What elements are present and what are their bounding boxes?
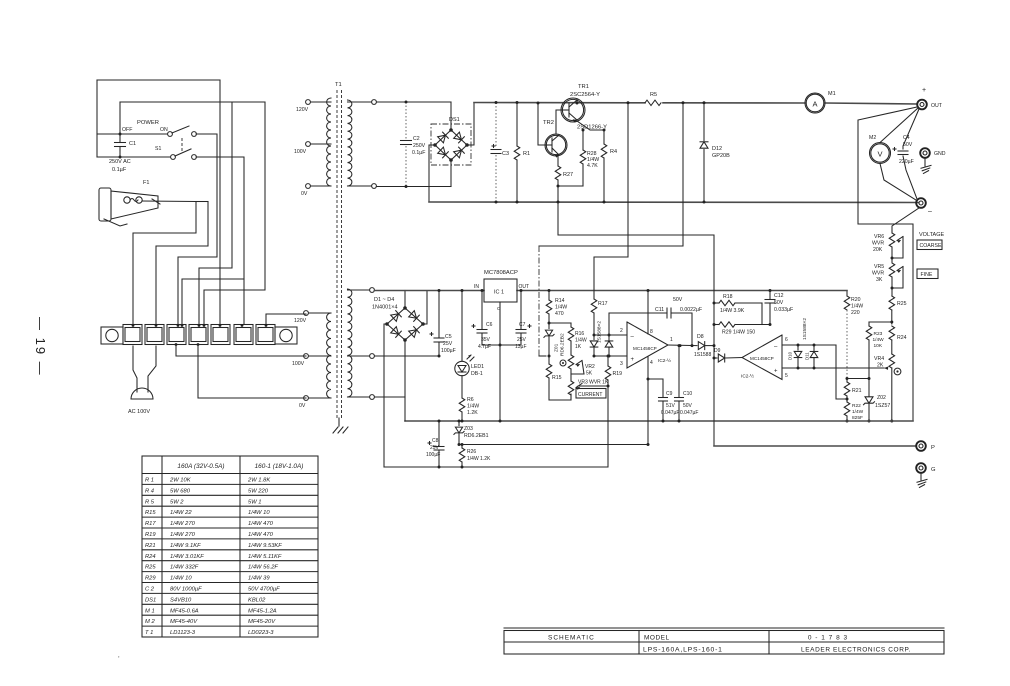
zener diode Z03 [458, 421, 460, 426]
svg-text:4.7µF: 4.7µF [478, 344, 491, 350]
wire fuse pair to strip sq2 [156, 202, 208, 325]
svg-text:0.047µF: 0.047µF [680, 410, 698, 416]
svg-text:0 - 1 7 8 3: 0 - 1 7 8 3 [808, 635, 848, 642]
AC plug [131, 388, 153, 399]
svg-text:MF45-20V: MF45-20V [248, 619, 276, 625]
svg-text:2: 2 [620, 328, 623, 334]
svg-text:1/4W 270: 1/4W 270 [170, 532, 196, 538]
wire R20 bottom to Z02 node [847, 378, 869, 380]
diode D12 [703, 103, 705, 141]
svg-text:LD1123-3: LD1123-3 [170, 630, 196, 636]
wire center tap line [374, 355, 439, 357]
svg-text:D8: D8 [697, 334, 704, 340]
resistor R24 [889, 326, 895, 340]
svg-text:DB-1: DB-1 [471, 371, 483, 377]
terminal strip left lug [101, 327, 123, 344]
svg-text:1S1588: 1S1588 [694, 352, 711, 358]
svg-text:TR2: TR2 [543, 120, 554, 126]
svg-text:0V: 0V [301, 191, 308, 197]
svg-text:100µF: 100µF [426, 452, 440, 458]
svg-text:S1: S1 [155, 146, 161, 152]
resistor R1 [516, 103, 518, 147]
wire C4 to minus terminal [903, 156, 917, 199]
svg-text:8: 8 [650, 329, 653, 335]
svg-text:160A (32V-0.5A): 160A (32V-0.5A) [177, 463, 224, 470]
svg-text:VR2: VR2 [585, 364, 595, 370]
resistor R15 [548, 356, 550, 364]
svg-text:1S1588×2: 1S1588×2 [802, 318, 808, 340]
capacitor C9 [648, 379, 663, 397]
resistor R18 [714, 302, 719, 304]
resistor R26 [461, 445, 463, 449]
wire R27/R28 junction [558, 185, 583, 187]
svg-text:50V 4700µF: 50V 4700µF [248, 587, 280, 593]
transformer secondary winding (bottom) [348, 289, 352, 397]
svg-text:1/4W: 1/4W [555, 305, 567, 311]
resistor R19 [607, 356, 609, 366]
resistor R14 [548, 291, 550, 301]
resistor R29 [714, 324, 719, 326]
svg-text:2SC2564-Y: 2SC2564-Y [570, 92, 600, 98]
svg-text:250V: 250V [413, 143, 426, 149]
svg-text:1/4W 3.9K: 1/4W 3.9K [720, 308, 745, 314]
svg-text:13µF: 13µF [515, 344, 527, 350]
svg-text:R 4: R 4 [145, 488, 154, 494]
svg-text:1: 1 [670, 337, 673, 343]
capacitor C7 [520, 291, 522, 330]
svg-text:R19: R19 [145, 532, 156, 538]
svg-text:4.7K: 4.7K [587, 163, 598, 169]
svg-text:–: – [928, 208, 932, 215]
svg-text:5W 680: 5W 680 [170, 488, 191, 494]
svg-text:51V: 51V [666, 403, 676, 409]
wire bias feed from top [539, 103, 683, 246]
svg-text:R20: R20 [851, 297, 861, 303]
svg-text:120V: 120V [296, 107, 309, 113]
svg-text:+: + [631, 357, 635, 363]
output terminal OUT+ [917, 100, 927, 110]
wire branch to strip sq3b [182, 279, 244, 324]
wire VR3 wiper to R19 [578, 385, 608, 387]
svg-text:R25: R25 [897, 301, 907, 307]
svg-text:C2: C2 [413, 136, 420, 142]
svg-text:0.033µF: 0.033µF [774, 307, 793, 313]
wire from fuse to strip sq1 [133, 202, 196, 325]
diode D8 [698, 342, 704, 350]
resistor R17 [591, 299, 597, 313]
wire pin5 line [782, 367, 884, 369]
svg-text:G: G [931, 467, 936, 473]
svg-text:IC 1: IC 1 [494, 290, 504, 296]
svg-text:R15: R15 [145, 510, 156, 516]
svg-text:KBL02: KBL02 [248, 597, 266, 603]
wire bridge bottom to 0V [404, 340, 406, 397]
svg-text:M 1: M 1 [145, 608, 155, 614]
svg-text:R16: R16 [575, 331, 584, 337]
svg-text:MF45-0.6A: MF45-0.6A [170, 608, 199, 614]
svg-text:POWER: POWER [137, 120, 159, 126]
terminal GND [920, 148, 930, 158]
svg-text:F1: F1 [143, 180, 149, 186]
svg-text:ON: ON [160, 127, 168, 133]
wire bridge left to 0V [384, 324, 387, 397]
svg-text:D11: D11 [805, 352, 810, 360]
svg-text:IC2-½: IC2-½ [658, 357, 671, 364]
svg-text:1/4W 5.11KF: 1/4W 5.11KF [248, 554, 282, 560]
wire 0V tap line [374, 396, 405, 398]
svg-text:LPS-160A,LPS-160-1: LPS-160A,LPS-160-1 [643, 647, 723, 654]
svg-text:1/4W 10: 1/4W 10 [248, 510, 270, 516]
svg-text:R29: R29 [145, 576, 156, 582]
svg-text:AC 100V: AC 100V [128, 409, 150, 415]
wire plug prong 1 [133, 346, 137, 387]
svg-text:1/4W 9.1KF: 1/4W 9.1KF [170, 543, 201, 549]
svg-text:R23: R23 [874, 331, 883, 337]
svg-text:P: P [931, 445, 935, 451]
svg-text:+: + [922, 87, 926, 94]
wire from switch common to top rail [97, 79, 220, 81]
capacitor C5 (electrolytic) [438, 291, 440, 338]
wire M2 to minus terminal [880, 164, 916, 201]
svg-text:R5: R5 [650, 92, 657, 98]
svg-text:1/4W 1.2K: 1/4W 1.2K [467, 456, 491, 462]
svg-text:1S1588×2: 1S1588×2 [597, 321, 603, 343]
svg-text:1/4W 56.2F: 1/4W 56.2F [248, 565, 278, 571]
svg-text:1K: 1K [575, 344, 582, 350]
svg-text:M1: M1 [828, 91, 836, 97]
svg-text:25V: 25V [443, 341, 453, 347]
svg-text:R1: R1 [523, 151, 530, 157]
svg-text:1/4W 470: 1/4W 470 [248, 521, 274, 527]
resistor R6 [461, 376, 463, 398]
wire from ON contact to strip sq3 [178, 134, 217, 324]
wire DS1 positive output [467, 103, 474, 146]
terminal strip right lug [275, 327, 297, 344]
svg-text:R15: R15 [552, 375, 562, 381]
svg-text:3: 3 [620, 361, 623, 367]
svg-text:100V: 100V [294, 149, 307, 155]
strip junctions [132, 324, 135, 327]
wire secondary to DS1 top [376, 101, 451, 103]
svg-text:LED1: LED1 [471, 364, 484, 370]
wire auxiliary rail [459, 444, 649, 446]
svg-text:5W 220: 5W 220 [248, 488, 269, 494]
positive rail (top) [474, 102, 645, 104]
svg-text:825F: 825F [852, 415, 863, 421]
wire op-amp supply pin 8 [647, 291, 649, 335]
svg-text:OFF: OFF [122, 127, 132, 133]
wire C8 return rail [384, 466, 462, 468]
wire pin6 line [782, 344, 836, 346]
svg-text:R24: R24 [145, 554, 156, 560]
svg-text:1/4W 270: 1/4W 270 [170, 521, 196, 527]
wire R25 bottom to R23 [869, 321, 892, 323]
wire bridge top to AC rail [404, 291, 406, 309]
svg-text:3K: 3K [876, 277, 883, 283]
parts difference table [142, 456, 318, 637]
wire from S1 lower contact to strip sq6 [196, 157, 244, 324]
wire AC line to terminal strip (sq5) [219, 80, 221, 324]
wire feedback to R21/R22 node [836, 345, 847, 399]
wire primary 120V tap to strip sq7 [266, 314, 306, 324]
svg-text:C 2: C 2 [145, 587, 155, 593]
capacitor C12 [769, 291, 771, 300]
svg-text:220: 220 [851, 310, 860, 316]
svg-text:25V: 25V [430, 445, 440, 451]
wire staircase to strip sq4 [204, 102, 265, 324]
resistor R27 [557, 156, 559, 166]
svg-text:M2: M2 [869, 135, 876, 141]
svg-text:6: 6 [785, 337, 788, 343]
capacitor C10 [678, 346, 680, 397]
label COARSE box [917, 240, 942, 250]
wire R14 to R16 [549, 322, 571, 324]
svg-text:IC2-½: IC2-½ [741, 373, 754, 380]
resistor R21 [846, 379, 848, 383]
op-amp IC2 second half [742, 335, 782, 380]
svg-text:T 1: T 1 [145, 630, 153, 636]
resistor R4 [603, 130, 605, 144]
svg-text:220µF: 220µF [899, 159, 914, 165]
wire staircase to strip sq4b [199, 102, 232, 324]
svg-text:5K: 5K [586, 371, 593, 377]
wire secondary bottom rail [376, 186, 451, 188]
diode D9 [714, 357, 717, 359]
svg-text:C6: C6 [486, 322, 493, 328]
svg-text:Z02: Z02 [877, 395, 886, 401]
svg-text:COARSE: COARSE [920, 243, 942, 249]
svg-text:VOLTAGE: VOLTAGE [919, 232, 944, 238]
svg-text:C11: C11 [655, 307, 664, 313]
output terminal minus [916, 198, 926, 208]
svg-text:1/4W: 1/4W [467, 404, 479, 410]
svg-text:5: 5 [785, 373, 788, 379]
svg-text:Z01: Z01 [554, 343, 560, 352]
svg-text:35V: 35V [481, 337, 491, 343]
wire OUT+ fan to C4 [903, 109, 919, 149]
svg-text:R4: R4 [610, 149, 617, 155]
terminal G [916, 463, 926, 473]
svg-text:Z03: Z03 [464, 426, 473, 432]
svg-text:R27: R27 [563, 172, 573, 178]
svg-text:2W 1.8K: 2W 1.8K [247, 478, 271, 484]
resistor R23 [868, 322, 870, 326]
svg-text:D9: D9 [714, 348, 721, 354]
svg-text:R25: R25 [145, 565, 156, 571]
capacitor C6 [481, 291, 483, 330]
LED1 [461, 291, 463, 362]
svg-text:+: + [774, 369, 778, 375]
svg-text:R19: R19 [613, 371, 623, 377]
wire sense line from R26 [462, 386, 608, 467]
diode D10 [797, 345, 799, 350]
wire from top rail to R17 (jog) [594, 103, 628, 299]
svg-text:1/4W: 1/4W [852, 409, 864, 415]
common rail (bottom) [405, 420, 913, 422]
resistor R25 [889, 296, 895, 310]
svg-text:RD6.2EB2: RD6.2EB2 [560, 333, 566, 356]
wire DS1 AC bottom [450, 160, 452, 187]
front panel knob [894, 368, 901, 375]
svg-text:0.1µF: 0.1µF [112, 167, 127, 173]
svg-text:R22: R22 [852, 403, 861, 409]
svg-text:RD6.2EB1: RD6.2EB1 [464, 433, 489, 439]
svg-text:R6: R6 [467, 397, 474, 403]
op-amp IC2 first half [627, 322, 668, 368]
wire DS1 negative output [429, 145, 435, 202]
wire minus to voltage pots [892, 208, 919, 231]
wire IC1 ground pin [499, 302, 501, 421]
wire OUT+ down the left loop [858, 107, 917, 421]
svg-text:1/4W: 1/4W [575, 338, 587, 344]
wire plug prong 2 [148, 346, 156, 387]
svg-text:GND: GND [934, 151, 946, 157]
svg-text:VR4: VR4 [874, 356, 884, 362]
transformer secondary winding (top) [348, 100, 352, 186]
svg-text:R17: R17 [598, 301, 608, 307]
svg-text:R17: R17 [145, 521, 156, 527]
svg-text:C7: C7 [519, 322, 526, 328]
svg-text:C3: C3 [502, 151, 509, 157]
svg-text:MF45-1.2A: MF45-1.2A [248, 608, 277, 614]
svg-text:100V: 100V [292, 361, 305, 367]
svg-text:TR1: TR1 [578, 84, 589, 90]
svg-text:50V: 50V [673, 297, 683, 303]
svg-text:0.0022µF: 0.0022µF [680, 307, 702, 313]
svg-text:5W 1: 5W 1 [248, 499, 262, 505]
zener diode Z02 [865, 397, 873, 403]
svg-text:WVR: WVR [872, 271, 884, 277]
svg-text:T1: T1 [335, 82, 342, 88]
label CURRENT box [576, 389, 606, 399]
svg-text:VR5: VR5 [874, 264, 884, 270]
svg-text:4: 4 [650, 360, 653, 366]
svg-text:D10: D10 [788, 351, 793, 360]
svg-text:1.2K: 1.2K [467, 410, 478, 416]
resistor R5 [645, 100, 661, 105]
svg-text:1/4W 332F: 1/4W 332F [170, 565, 199, 571]
svg-text:LD0223-3: LD0223-3 [248, 630, 274, 636]
wire primary 0V tap under strip [198, 346, 306, 398]
svg-text:VR6: VR6 [874, 234, 884, 240]
title block [504, 631, 944, 655]
svg-text:S4VB10: S4VB10 [170, 597, 192, 603]
svg-text:R18: R18 [723, 294, 733, 300]
svg-text:R26: R26 [467, 449, 476, 455]
svg-text:120V: 120V [294, 318, 307, 324]
svg-text:R14: R14 [555, 298, 565, 304]
svg-text:1/4W 22: 1/4W 22 [170, 510, 192, 516]
svg-text:0.1µF: 0.1µF [412, 150, 425, 156]
svg-text:1/4W 39: 1/4W 39 [248, 576, 270, 582]
svg-text:A: A [812, 100, 817, 109]
svg-text:C10: C10 [683, 391, 692, 397]
voltmeter M2 [870, 143, 891, 164]
svg-text:DS1: DS1 [145, 597, 156, 603]
svg-text:MC1458CP: MC1458CP [633, 346, 657, 351]
terminal strip [123, 325, 142, 345]
svg-text:5W 2: 5W 2 [170, 499, 184, 505]
svg-text:0.047µF: 0.047µF [661, 410, 679, 416]
resistor R20 [846, 291, 848, 297]
svg-text:— 19 —: — 19 — [33, 317, 48, 377]
svg-text:1/4W 9.53KF: 1/4W 9.53KF [248, 543, 282, 549]
svg-text:80V 1000µF: 80V 1000µF [170, 587, 202, 593]
capacitor C3 (electrolytic) [495, 103, 497, 149]
svg-text:1/4W 3.01KF: 1/4W 3.01KF [170, 554, 204, 560]
svg-text:25V: 25V [517, 337, 527, 343]
wire op-amp output [668, 344, 697, 347]
capacitor C1 [119, 134, 121, 143]
svg-text:V: V [877, 150, 882, 159]
svg-text:LEADER ELECTRONICS CORP.: LEADER ELECTRONICS CORP. [801, 647, 911, 654]
svg-text:OUT: OUT [931, 103, 943, 109]
svg-text:470: 470 [555, 311, 564, 317]
svg-text:R 1: R 1 [145, 478, 154, 484]
svg-text:C9: C9 [666, 391, 673, 397]
potentiometer VR3 [568, 381, 574, 395]
wire TR2 emitter sense to lower section [558, 203, 714, 447]
zener diode Z01 [548, 323, 550, 329]
svg-text:250V AC: 250V AC [109, 159, 131, 165]
terminal P [714, 445, 916, 447]
wire TR1 base from TR2 collector [556, 110, 561, 133]
label FINE box [917, 269, 938, 279]
svg-text:MC1458CP: MC1458CP [750, 356, 774, 361]
svg-text:MC7808ACP: MC7808ACP [484, 270, 518, 276]
svg-text:SCHEMATIC: SCHEMATIC [548, 635, 595, 642]
resistor R16 [570, 323, 572, 327]
svg-text:50V: 50V [774, 300, 784, 306]
svg-text:WVR: WVR [872, 241, 884, 247]
svg-text:VR3 WVR 1K: VR3 WVR 1K [578, 380, 609, 386]
potentiometer VR2 [568, 355, 574, 369]
svg-text:R21: R21 [145, 543, 156, 549]
svg-text:C1: C1 [129, 141, 136, 147]
diode D5 [593, 335, 595, 340]
svg-text:R 5: R 5 [145, 499, 155, 505]
svg-text:1/4W: 1/4W [873, 337, 885, 343]
svg-text:M 2: M 2 [145, 619, 155, 625]
ground at transformer core [338, 418, 340, 426]
svg-text:C8: C8 [432, 438, 439, 444]
svg-text:10K: 10K [874, 343, 883, 349]
transformer primary winding (top) [327, 98, 331, 186]
svg-text:R21: R21 [852, 388, 862, 394]
svg-text:MODEL: MODEL [644, 635, 670, 642]
svg-text:MF45-40V: MF45-40V [170, 619, 198, 625]
wire bridge right to DC rail [423, 291, 427, 325]
main 8V rail [374, 290, 484, 292]
wire line2 from C1 node [120, 101, 265, 103]
wire TR1 emitter line [577, 121, 604, 130]
ammeter M1 [805, 93, 825, 113]
svg-text:R24: R24 [897, 335, 907, 341]
svg-text:2W 10K: 2W 10K [169, 478, 192, 484]
svg-text:D1 ~ D4: D1 ~ D4 [374, 297, 394, 303]
svg-text:R29 1/4W 150: R29 1/4W 150 [722, 330, 755, 336]
capacitor C2 [405, 102, 407, 139]
svg-text:1SZ57: 1SZ57 [875, 403, 890, 409]
svg-text:1/4W 10: 1/4W 10 [170, 576, 192, 582]
svg-text:0V: 0V [299, 403, 306, 409]
svg-text:50V: 50V [683, 403, 693, 409]
capacitor C8 (electrolytic) [438, 421, 440, 446]
diode D6 [608, 335, 610, 341]
svg-text:GP20B: GP20B [712, 153, 730, 159]
svg-text:C5: C5 [445, 334, 452, 340]
svg-text:160-1 (18V-1.0A): 160-1 (18V-1.0A) [255, 463, 304, 470]
